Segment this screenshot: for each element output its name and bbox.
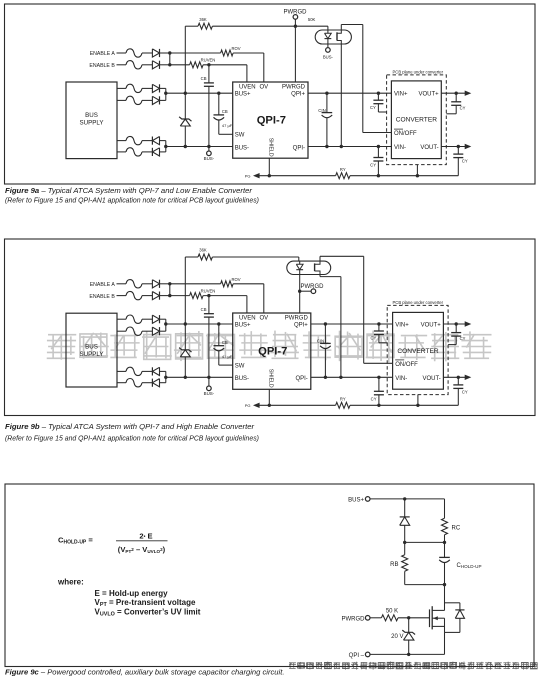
svg-text:PWRGD: PWRGD xyxy=(282,84,306,90)
diode D4 (bus OR-ing, row 2) (Fig 9b) xyxy=(152,327,165,335)
wire VOUT- output with arrow (Fig 9a) xyxy=(441,144,471,149)
terminal QPI- (Fig 9c) xyxy=(349,652,370,659)
converter module box (Fig 9b) xyxy=(393,312,444,389)
svg-text:(Refer to Figure 15 and QPI-AN: (Refer to Figure 15 and QPI-AN1 applicat… xyxy=(5,198,259,205)
wire RUVEN to UVEN pin (Fig 9b) xyxy=(203,294,247,313)
wire PG rail (Fig 9b) xyxy=(350,404,458,407)
svg-text:20 V: 20 V xyxy=(391,634,403,640)
wire bus+ OR junction bar (Fig 9a) xyxy=(164,88,167,100)
terminal PWRGD (Fig 9c) xyxy=(342,616,371,623)
svg-text:PWRGD: PWRGD xyxy=(342,616,366,622)
svg-text:CY: CY xyxy=(371,397,377,402)
svg-text:RUVEN: RUVEN xyxy=(201,288,216,293)
caption Figure 9b xyxy=(5,422,259,443)
resistor 36K (Fig 9b) xyxy=(185,248,212,260)
resistor 36K (Fig 9a) xyxy=(185,17,212,29)
svg-text:ROV: ROV xyxy=(231,46,240,51)
wire RUVEN to UVEN pin (Fig 9a) xyxy=(203,63,247,82)
capacitor CY2 (VIN- to PG rail) (Fig 9b) xyxy=(371,377,384,405)
svg-text:CY: CY xyxy=(370,336,376,341)
wire BUS- line to chip (Fig 9b) xyxy=(166,376,233,379)
wire QPI- rail to MOSFET source xyxy=(370,632,445,654)
diode D2 (ENABLE B OR-ing) (Fig 9a) xyxy=(152,61,169,69)
svg-text:SHIELD: SHIELD xyxy=(267,138,273,157)
diode D3 (bus OR-ing, row 1) (Fig 9b) xyxy=(152,315,165,323)
transistor Q1 N-MOSFET xyxy=(430,606,445,632)
diode D4 (bus OR-ing, row 2) (Fig 9a) xyxy=(152,96,165,104)
wire BUS+ line to chip (Fig 9b) xyxy=(166,322,233,325)
svg-text:(Refer to Figure 15 and QPI-AN: (Refer to Figure 15 and QPI-AN1 applicat… xyxy=(5,435,259,442)
svg-text:CHOLD-UP: CHOLD-UP xyxy=(457,563,482,569)
svg-text:ROV: ROV xyxy=(231,277,240,282)
svg-text:SHIELD: SHIELD xyxy=(267,369,273,388)
svg-text:where:: where: xyxy=(57,577,84,586)
wire ROV to OV pin (Fig 9b) xyxy=(233,284,264,313)
wire opto emitter to QPI- line (Fig 9a) xyxy=(340,44,343,148)
diode D9 (discharge) xyxy=(400,499,410,544)
resistor RUVEN (Fig 9a) xyxy=(190,58,216,68)
svg-text:VOUT+: VOUT+ xyxy=(421,322,442,328)
wire ENABLE B with connector squiggle (Fig 9a) xyxy=(117,61,153,69)
formula C HOLD-UP xyxy=(58,532,168,554)
svg-text:50K: 50K xyxy=(308,17,316,22)
label 50K (Fig 9a) xyxy=(308,17,316,22)
svg-text:PG: PG xyxy=(245,174,251,179)
svg-text:BUS-: BUS- xyxy=(204,156,215,161)
capacitor CB 47uF (BUS+ to SW) (Fig 9b) xyxy=(214,324,233,365)
svg-text:CONVERTER: CONVERTER xyxy=(397,348,439,355)
svg-text:BUS: BUS xyxy=(85,343,98,350)
capacitor CHOLD-UP xyxy=(439,542,481,584)
wire enable node to RUVEN (Fig 9a) xyxy=(170,64,190,66)
svg-text:CB: CB xyxy=(201,307,207,312)
svg-text:PWRGD: PWRGD xyxy=(301,284,325,290)
resistor RUVEN (Fig 9b) xyxy=(190,288,216,298)
capacitor CB (UVEN to BUS-) (Fig 9a) xyxy=(201,65,214,147)
diode D8 (bus return, row 4) (Fig 9b) xyxy=(152,379,165,387)
wire bus- OR junction bar (Fig 9a) xyxy=(164,141,167,152)
svg-text:Figure 9a – Typical ATCA Syste: Figure 9a – Typical ATCA System with QPI… xyxy=(5,186,252,195)
diode D7 (bus return, row 3) (Fig 9a) xyxy=(152,137,165,145)
svg-text:CB: CB xyxy=(222,109,228,114)
wire bus return 4 with connector squiggle (Fig 9a) xyxy=(117,148,152,156)
svg-text:36K: 36K xyxy=(199,17,207,22)
node ENABLE B label (Fig 9b) xyxy=(89,294,115,300)
capacitor CY4 (VOUT- to PG rail) (Fig 9b) xyxy=(453,377,468,405)
capacitor CIN (Fig 9a) xyxy=(318,93,332,146)
capacitor CY1 (VIN+ to plane) (Fig 9a) xyxy=(370,93,387,112)
svg-text:Figure 9c – Powergood controll: Figure 9c – Powergood controlled, auxili… xyxy=(5,668,284,677)
wire bus return 4 with connector squiggle (Fig 9b) xyxy=(117,379,152,387)
wire bus- OR junction bar (Fig 9b) xyxy=(164,371,167,382)
figure border frame (Fig 9b) xyxy=(5,239,536,416)
caption Figure 9c xyxy=(5,668,284,677)
svg-text:ENABLE B: ENABLE B xyxy=(89,63,115,69)
wire bus return 3 with connector squiggle (Fig 9b) xyxy=(117,367,152,375)
diode D2 (ENABLE B OR-ing) (Fig 9b) xyxy=(152,292,169,300)
wire ENABLE B with connector squiggle (Fig 9b) xyxy=(117,291,153,299)
diode D1 (ENABLE A OR-ing) (Fig 9a) xyxy=(152,49,169,57)
svg-text:VOUT-: VOUT- xyxy=(422,376,440,382)
node ENABLE A label (Fig 9b) xyxy=(90,282,116,288)
svg-text:VOUT-: VOUT- xyxy=(420,145,438,151)
node ENABLE A label (Fig 9a) xyxy=(90,51,116,57)
svg-text:VUVLO = Converter’s UV limit: VUVLO = Converter’s UV limit xyxy=(95,608,201,618)
wire plane stub to PG rail (Fig 9b) xyxy=(417,395,419,406)
svg-text:QPI+: QPI+ xyxy=(291,92,305,98)
svg-text:VOUT+: VOUT+ xyxy=(419,92,440,98)
wire opto LED cathode to PWRGD node (Fig 9b) xyxy=(298,275,301,293)
wire bus feed 2 with connector squiggle (Fig 9b) xyxy=(117,327,152,335)
svg-text:CY: CY xyxy=(460,336,466,341)
PCB plane under converter (dashed) (Fig 9a) xyxy=(387,69,447,164)
terminal BUS- below CB (Fig 9a) xyxy=(204,145,215,161)
figure border frame (Fig 9a) xyxy=(5,4,536,184)
svg-text:QPI-7: QPI-7 xyxy=(258,345,287,357)
node PG arrow (Fig 9a) xyxy=(245,173,336,179)
PCB plane under converter (dashed) (Fig 9b) xyxy=(387,300,448,395)
svg-text:SUPPLY: SUPPLY xyxy=(80,120,104,127)
svg-text:OV: OV xyxy=(259,315,268,321)
converter module box (Fig 9a) xyxy=(391,81,441,159)
svg-text:PCB plane under converter: PCB plane under converter xyxy=(393,300,444,305)
svg-text:CIN: CIN xyxy=(318,108,325,113)
wire VOUT+ output with arrow (Fig 9b) xyxy=(443,321,471,326)
capacitor CY3 (VOUT+ to plane) (Fig 9a) xyxy=(446,93,465,114)
wire PWRGD node to chip PWRGD pin (Fig 9b) xyxy=(299,291,301,313)
resistor RC xyxy=(442,499,461,544)
svg-text:CONVERTER: CONVERTER xyxy=(396,116,438,123)
svg-text:CIN: CIN xyxy=(317,339,324,344)
svg-text:VIN-: VIN- xyxy=(394,145,406,151)
svg-text:BUS-: BUS- xyxy=(235,376,249,382)
wire 36K row to opto LED (Fig 9a) xyxy=(212,25,328,31)
terminal PWRGD (Fig 9a) xyxy=(284,10,308,27)
wire QPI+ to VIN+ (Fig 9a) xyxy=(308,92,391,95)
svg-text:PG: PG xyxy=(245,403,251,408)
wire 36K left leg (to BUS+) (Fig 9a) xyxy=(184,26,186,93)
wire ENABLE A with connector squiggle (Fig 9a) xyxy=(117,49,153,57)
bus supply box (Fig 9b) xyxy=(66,313,117,387)
wire opto collector to converter ON/OFF (Fig 9a) xyxy=(341,25,391,133)
svg-text:BUS+: BUS+ xyxy=(235,322,251,328)
terminal PWRGD (Fig 9b) xyxy=(300,284,324,294)
optocoupler U2 (Fig 9b) xyxy=(287,261,331,274)
wire plane stub to PG rail (Fig 9a) xyxy=(416,165,418,176)
wire bus feed 2 with connector squiggle (Fig 9a) xyxy=(117,96,152,104)
svg-text:VIN+: VIN+ xyxy=(395,322,409,328)
resistor ROV (Fig 9b) xyxy=(221,277,241,287)
svg-text:BUS-: BUS- xyxy=(235,145,249,151)
svg-text:CY: CY xyxy=(462,389,468,394)
zener diode Z3 20V xyxy=(391,618,415,656)
capacitor CY2 (VIN- to PG rail) (Fig 9a) xyxy=(370,147,383,176)
svg-text:36K: 36K xyxy=(199,248,207,253)
svg-text:50 K: 50 K xyxy=(386,608,398,614)
svg-text:QPI+: QPI+ xyxy=(294,322,308,328)
capacitor CIN (Fig 9b) xyxy=(317,324,331,377)
svg-text:QPI-: QPI- xyxy=(295,376,307,382)
zener diode Z1 across bus (Fig 9b) xyxy=(179,324,191,377)
capacitor CY1 (VIN+ to plane) (Fig 9b) xyxy=(370,324,387,343)
figure border frame (Fig 9c) xyxy=(5,484,534,667)
wire 36K row to opto LED (Fig 9b) xyxy=(212,257,298,261)
svg-text:RUVEN: RUVEN xyxy=(201,58,216,63)
svg-text:2• E: 2• E xyxy=(139,532,152,541)
wire opto emitter to QPI- line (Fig 9b) xyxy=(320,275,343,379)
svg-text:CY: CY xyxy=(370,163,376,168)
wire QPI+ to VIN+ (Fig 9b) xyxy=(311,322,393,325)
svg-text:CB: CB xyxy=(222,340,228,345)
svg-text:BUS: BUS xyxy=(85,112,98,119)
wire VOUT+ output with arrow (Fig 9a) xyxy=(441,91,471,96)
svg-text:QPI-7: QPI-7 xyxy=(257,114,286,126)
svg-text:PWRGD: PWRGD xyxy=(285,315,309,321)
svg-text:QPI –: QPI – xyxy=(349,653,365,659)
svg-text:ON/OFF: ON/OFF xyxy=(394,131,417,137)
svg-text:ENABLE B: ENABLE B xyxy=(89,294,115,300)
diode D1 (ENABLE A OR-ing) (Fig 9b) xyxy=(152,280,169,288)
wire opto collector to converter ON/OFF (Fig 9b) xyxy=(320,256,393,363)
wire enable node to ROV (Fig 9a) xyxy=(170,52,221,54)
node ENABLE B label (Fig 9a) xyxy=(89,63,115,69)
wire QPI- to VIN- (Fig 9a) xyxy=(308,145,391,148)
wire bus feed 1 with connector squiggle (Fig 9a) xyxy=(117,84,152,92)
wire bus feed 1 with connector squiggle (Fig 9b) xyxy=(117,315,152,323)
watermark small band (decorative) xyxy=(288,662,537,670)
diode D10 (MOSFET body) xyxy=(445,603,465,633)
svg-text:VIN-: VIN- xyxy=(395,376,407,382)
wire bus+ OR junction bar (Fig 9b) xyxy=(164,319,167,331)
svg-text:OV: OV xyxy=(259,84,268,90)
svg-text:UVEN: UVEN xyxy=(239,84,256,90)
svg-text:RC: RC xyxy=(452,525,461,531)
svg-text:RY: RY xyxy=(340,397,346,402)
wire C to MOSFET drain xyxy=(445,585,460,611)
wire PG rail (Fig 9a) xyxy=(350,174,458,177)
wire 36K left leg (to BUS+) (Fig 9b) xyxy=(184,257,186,324)
svg-text:CB: CB xyxy=(201,76,207,81)
svg-text:SW: SW xyxy=(235,364,245,370)
wire opto LED cathode to BUS- terminal (Fig 9a) xyxy=(323,44,334,59)
svg-text:SUPPLY: SUPPLY xyxy=(80,351,104,358)
svg-text:RB: RB xyxy=(390,562,398,568)
wire enable node to RUVEN (Fig 9b) xyxy=(170,295,190,297)
terminal BUS+ (Fig 9c) xyxy=(348,497,370,504)
wire diode-RC junction xyxy=(405,541,445,543)
op-amp U1 QPI-7 hot-swap controller (Fig 9a) xyxy=(233,82,308,158)
optocoupler U2 (Fig 9a) xyxy=(315,30,351,44)
svg-text:ENABLE A: ENABLE A xyxy=(90,51,116,57)
svg-text:CY: CY xyxy=(462,159,468,164)
node PG arrow (Fig 9b) xyxy=(245,403,336,409)
capacitor CB 47uF (BUS+ to SW) (Fig 9a) xyxy=(214,93,233,134)
svg-text:Figure 9b – Typical ATCA Syste: Figure 9b – Typical ATCA System with QPI… xyxy=(5,422,255,431)
wire ENABLE A with connector squiggle (Fig 9b) xyxy=(117,280,153,288)
wire ROV to OV pin (Fig 9a) xyxy=(233,53,264,82)
svg-text:PCB plane under converter: PCB plane under converter xyxy=(393,69,444,74)
svg-text:(VPT2 – VUVLO2): (VPT2 – VUVLO2) xyxy=(118,545,166,554)
svg-text:47 µF: 47 µF xyxy=(222,354,233,359)
svg-text:E = Hold-up energy: E = Hold-up energy xyxy=(95,589,169,598)
diode D7 (bus return, row 3) (Fig 9b) xyxy=(152,367,165,375)
zener diode Z1 across bus (Fig 9a) xyxy=(179,93,191,146)
wire enable OR junction bar (Fig 9a) xyxy=(168,51,171,66)
resistor 50K xyxy=(370,608,430,621)
svg-text:VIN+: VIN+ xyxy=(394,92,408,98)
capacitor CY4 (VOUT- to PG rail) (Fig 9a) xyxy=(453,147,468,176)
svg-text:BUS+: BUS+ xyxy=(348,497,364,503)
svg-text:47 µF: 47 µF xyxy=(222,123,233,128)
resistor RY (Fig 9b) xyxy=(336,397,350,409)
bus supply box (Fig 9a) xyxy=(66,82,117,159)
svg-text:RY: RY xyxy=(340,167,346,172)
svg-text:BUS+: BUS+ xyxy=(235,92,251,98)
resistor RB xyxy=(390,542,446,586)
caption Figure 9a xyxy=(5,186,259,205)
wire PWRGD pin to chip (Fig 9a) xyxy=(294,26,296,82)
wire enable node to ROV (Fig 9b) xyxy=(170,283,221,285)
wire QPI- to VIN- (Fig 9b) xyxy=(311,376,393,379)
svg-text:CHOLD-UP =: CHOLD-UP = xyxy=(58,536,93,546)
wire enable OR junction bar (Fig 9b) xyxy=(168,282,171,297)
diode D8 (bus return, row 4) (Fig 9a) xyxy=(152,148,165,156)
svg-text:UVEN: UVEN xyxy=(239,315,256,321)
wire VOUT- output with arrow (Fig 9b) xyxy=(443,375,471,380)
resistor ROV (Fig 9a) xyxy=(221,46,241,56)
formula legend xyxy=(57,577,201,617)
svg-text:BUS-: BUS- xyxy=(204,391,215,396)
wire BUS+ line to chip (Fig 9a) xyxy=(166,92,233,95)
resistor RY (Fig 9a) xyxy=(336,167,350,179)
wire BUS- line to chip (Fig 9a) xyxy=(166,145,233,148)
wire bus return 3 with connector squiggle (Fig 9a) xyxy=(117,136,152,144)
op-amp U1 QPI-7 hot-swap controller (Fig 9b) xyxy=(233,313,311,389)
capacitor CY3 (VOUT+ to plane) (Fig 9b) xyxy=(448,324,466,345)
wire SHIELD pin to PG rail (Fig 9b) xyxy=(268,389,271,407)
svg-text:ENABLE A: ENABLE A xyxy=(90,282,116,288)
svg-text:ON/OFF: ON/OFF xyxy=(395,362,418,368)
diode D3 (bus OR-ing, row 1) (Fig 9a) xyxy=(152,84,165,92)
wire SHIELD pin to PG rail (Fig 9a) xyxy=(268,158,271,177)
wire BUS+ rail xyxy=(370,497,445,500)
terminal BUS- below CB (Fig 9b) xyxy=(204,376,215,397)
svg-text:CY: CY xyxy=(370,105,376,110)
svg-text:QPI-: QPI- xyxy=(293,145,305,151)
capacitor CB (UVEN to BUS-) (Fig 9b) xyxy=(201,296,214,378)
svg-text:SW: SW xyxy=(235,133,245,139)
svg-text:CY: CY xyxy=(460,105,466,110)
svg-text:BUS-: BUS- xyxy=(323,54,334,59)
watermark (decorative) xyxy=(47,331,492,363)
